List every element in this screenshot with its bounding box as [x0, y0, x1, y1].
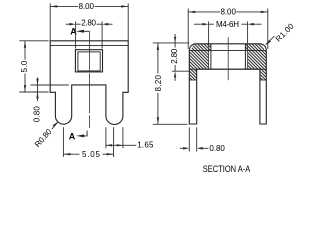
front top edge inner line — [50, 45, 128, 47]
dim 8.20: extension line bottom — [153, 123, 188, 125]
section leg hatch boundary left — [189, 79, 196, 81]
window outer rect — [75, 50, 102, 72]
svg-text:2.80: 2.80 — [81, 19, 96, 28]
dim 5.0: dimension line and arrows — [24, 41, 26, 92]
section arrow bottom — [76, 131, 87, 138]
dim 1.65: dimension line and arrows — [106, 144, 136, 146]
dim M4-6H: dimension line and outside arrows — [194, 23, 262, 26]
svg-text:A: A — [69, 132, 76, 142]
leader R0.80 — [52, 122, 59, 130]
dim 5.0: extension lines — [19, 41, 48, 92]
dim 2.80 front: dimension line and outside arrows — [66, 23, 113, 26]
svg-text:0.80: 0.80 — [32, 106, 41, 123]
svg-text:SECTION A-A: SECTION A-A — [203, 164, 251, 174]
dim 8.00 front: extension lines — [50, 3, 128, 40]
dim 0.80 front: extension line upper — [31, 84, 69, 86]
section inner horizontal line — [189, 49, 266, 51]
svg-text:2.80: 2.80 — [170, 48, 179, 64]
dim M4-6H: extension lines — [209, 21, 248, 43]
hole centerline — [227, 37, 229, 80]
dim 0.80 section: extension lines — [189, 127, 196, 151]
dim 2.80 front: extension lines — [76, 21, 103, 48]
dim 5.05: dimension line and arrows — [63, 153, 113, 155]
svg-text:5.05: 5.05 — [82, 150, 101, 159]
section line A-A centerline — [88, 31, 90, 128]
section right wall hatch — [245, 44, 264, 51]
svg-text:8.20: 8.20 — [154, 75, 163, 92]
leader R1.00 — [265, 36, 275, 45]
svg-text:8.00: 8.00 — [221, 8, 237, 17]
dim 1.65: extension lines — [106, 127, 123, 148]
section body outline — [189, 44, 266, 124]
svg-text:M4-6H: M4-6H — [216, 20, 239, 29]
front view body outline — [50, 41, 128, 125]
svg-text:0.80: 0.80 — [209, 144, 225, 153]
svg-text:5.0: 5.0 — [20, 60, 29, 72]
dim 0.80 front: dimension line and outside arrows — [36, 78, 38, 102]
svg-text:1.65: 1.65 — [137, 141, 154, 150]
section left leg hatch — [189, 69, 196, 80]
dim 8.20: dimension line and arrows — [157, 43, 159, 124]
section leg hatch boundary right — [260, 79, 266, 81]
dim 2.80 section: dimension line and outside arrows — [174, 34, 176, 81]
dim 5.05: extension lines — [63, 127, 113, 157]
section left wall hatch — [191, 44, 210, 51]
dim 8.00 section: dimension line and arrows — [188, 11, 268, 13]
dim 8.00 section: extension lines — [188, 9, 268, 49]
dim 0.80 section: dimension line and outside arrows — [180, 147, 209, 150]
dim 2.80 section: extension lines — [153, 43, 189, 71]
svg-text:8.00: 8.00 — [79, 2, 95, 11]
hole bore lines — [211, 44, 246, 69]
section right leg hatch — [260, 69, 266, 80]
thread major diameter lines — [209, 44, 248, 69]
svg-text:A: A — [70, 27, 77, 37]
window inner rect — [78, 52, 100, 71]
section arrow top — [76, 30, 89, 33]
dim 8.00 front: dimension line and arrows — [50, 5, 128, 7]
section ceiling line — [189, 68, 266, 70]
